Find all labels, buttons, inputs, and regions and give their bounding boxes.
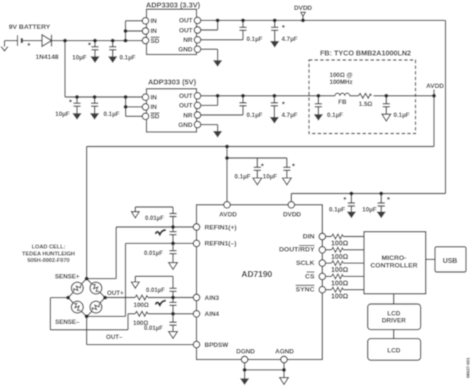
svg-text:4.7µF: 4.7µF [282, 36, 298, 43]
svg-text:REFIN1(+): REFIN1(+) [205, 224, 237, 231]
svg-text:BPDSW: BPDSW [205, 342, 230, 349]
svg-text:GND: GND [178, 47, 193, 54]
svg-text:REFIN1(–): REFIN1(–) [205, 241, 237, 248]
svg-text:IN: IN [151, 104, 158, 111]
svg-text:0.01µF: 0.01µF [146, 288, 165, 294]
svg-text:SD: SD [151, 38, 160, 45]
svg-text:NR: NR [183, 37, 193, 44]
svg-text:DVDD: DVDD [283, 212, 301, 219]
svg-text:IN: IN [151, 18, 158, 25]
svg-text:DRIVER: DRIVER [382, 317, 407, 324]
svg-text:1N4148: 1N4148 [35, 54, 58, 61]
svg-text:100Ω: 100Ω [331, 241, 349, 248]
svg-text:DVDD: DVDD [294, 5, 312, 12]
svg-text:100Ω @: 100Ω @ [330, 72, 353, 79]
svg-text:100Ω: 100Ω [331, 254, 349, 261]
svg-text:IN: IN [151, 28, 158, 35]
svg-text:LCD: LCD [387, 347, 401, 354]
svg-text:DOUT/RDY: DOUT/RDY [279, 247, 315, 254]
svg-text:ADP3303 (5V): ADP3303 (5V) [148, 78, 197, 87]
svg-text:0.01µF: 0.01µF [144, 326, 163, 332]
svg-text:1.5Ω: 1.5Ω [359, 101, 373, 108]
svg-text:NR: NR [183, 112, 193, 119]
svg-text:OUT: OUT [179, 93, 193, 100]
svg-text:SCLK: SCLK [296, 260, 315, 267]
svg-text:100Ω: 100Ω [331, 294, 349, 301]
svg-text:IN: IN [151, 95, 158, 102]
svg-text:AVDD: AVDD [219, 212, 237, 219]
svg-text:OUT+: OUT+ [107, 290, 124, 297]
svg-text:505H-0002-F070: 505H-0002-F070 [27, 258, 69, 264]
svg-text:CONTROLLER: CONTROLLER [370, 263, 417, 270]
svg-text:*: * [88, 40, 91, 49]
svg-text:10µF: 10µF [263, 173, 277, 180]
svg-text:10µF: 10µF [362, 206, 376, 213]
svg-text:08537-001: 08537-001 [466, 357, 471, 378]
svg-text:AIN4: AIN4 [205, 311, 220, 318]
svg-text:AVDD: AVDD [426, 83, 444, 90]
svg-text:FB: TYCO BMB2A1000LN2: FB: TYCO BMB2A1000LN2 [320, 48, 411, 57]
svg-text:CS: CS [305, 273, 315, 280]
svg-text:0.1µF: 0.1µF [235, 173, 251, 180]
svg-text:*: * [343, 195, 346, 204]
svg-text:SYNC: SYNC [296, 287, 315, 294]
svg-text:OUT–: OUT– [106, 334, 123, 341]
svg-text:SENSE+: SENSE+ [55, 274, 80, 281]
svg-text:ADP3303 (3.3V): ADP3303 (3.3V) [146, 1, 201, 10]
svg-text:0.01µF: 0.01µF [145, 216, 164, 222]
svg-text:0.1µF: 0.1µF [120, 54, 136, 61]
svg-text:TEDEA HUNTLEIGH: TEDEA HUNTLEIGH [22, 251, 75, 257]
svg-text:10µF: 10µF [72, 54, 86, 61]
svg-text:MICRO-: MICRO- [382, 255, 407, 262]
svg-text:100Ω: 100Ω [331, 280, 349, 287]
svg-text:LOAD CELL:: LOAD CELL: [32, 245, 66, 251]
svg-text:AD7190: AD7190 [241, 269, 272, 279]
svg-text:OUT: OUT [179, 103, 193, 110]
svg-text:0.1µF: 0.1µF [104, 111, 120, 118]
svg-text:9V BATTERY: 9V BATTERY [9, 24, 51, 31]
svg-text:100MHz: 100MHz [330, 79, 353, 86]
svg-text:DGND: DGND [236, 348, 255, 355]
svg-text:0.1µF: 0.1µF [327, 112, 343, 119]
svg-text:GND: GND [178, 122, 193, 129]
svg-text:0.1µF: 0.1µF [329, 206, 345, 213]
svg-text:SD: SD [151, 114, 160, 121]
svg-text:*: * [387, 195, 390, 204]
svg-text:*: * [69, 97, 72, 106]
svg-text:4.7µF: 4.7µF [282, 112, 298, 119]
svg-text:AGND: AGND [275, 348, 294, 355]
svg-text:*: * [282, 23, 285, 32]
svg-text:OUT: OUT [179, 18, 193, 25]
svg-text:100Ω: 100Ω [134, 302, 149, 309]
svg-text:100Ω: 100Ω [331, 267, 349, 274]
svg-text:AIN3: AIN3 [205, 295, 220, 302]
svg-text:*: * [292, 161, 295, 170]
svg-text:USB: USB [443, 258, 458, 265]
svg-text:*: * [282, 100, 285, 109]
svg-text:DIN: DIN [303, 233, 315, 240]
svg-text:*: * [27, 41, 30, 50]
svg-text:10µF: 10µF [55, 111, 69, 118]
svg-text:0.1µF: 0.1µF [247, 36, 263, 43]
svg-text:FB: FB [338, 99, 347, 106]
svg-text:*: * [261, 161, 264, 170]
svg-text:0.1µF: 0.1µF [394, 112, 410, 119]
svg-text:0.1µF: 0.1µF [247, 112, 263, 119]
svg-text:0.01µF: 0.01µF [144, 251, 163, 257]
svg-text:SENSE–: SENSE– [55, 319, 80, 326]
svg-text:OUT: OUT [179, 27, 193, 34]
